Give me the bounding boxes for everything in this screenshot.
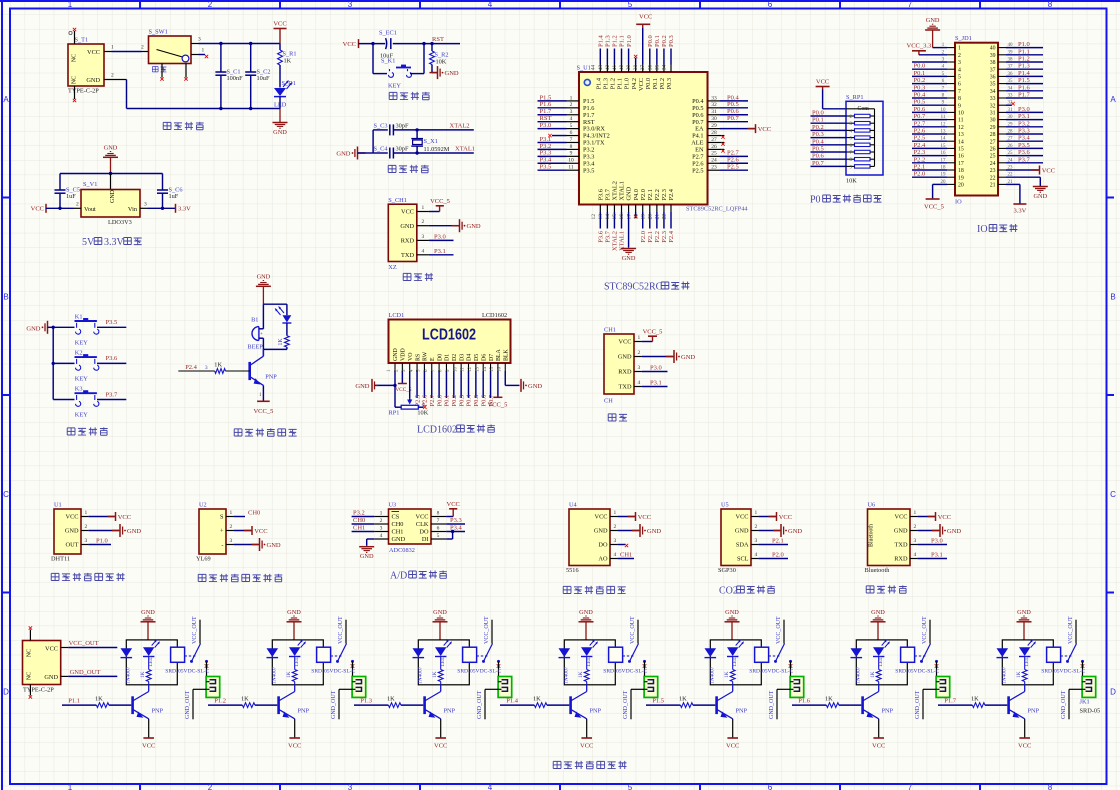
- svg-text:GND: GND: [273, 129, 287, 136]
- svg-text:11: 11: [958, 118, 964, 124]
- svg-text:SRD-05VDC-SL-C: SRD-05VDC-SL-C: [165, 669, 209, 675]
- svg-text:5: 5: [628, 0, 633, 9]
- svg-text:26: 26: [711, 144, 717, 150]
- svg-text:SRD-05: SRD-05: [1080, 708, 1101, 715]
- svg-text:VCC_OUT: VCC_OUT: [630, 616, 636, 644]
- svg-text:44: 44: [591, 65, 597, 71]
- svg-text:25: 25: [711, 151, 717, 157]
- serial pin3 P3.0: [634, 371, 642, 373]
- svg-text:14: 14: [605, 214, 611, 220]
- resistor 1K base unit 1: [62, 704, 96, 706]
- svg-text:B1: B1: [251, 316, 258, 323]
- adc U3 ADC0832: [389, 509, 432, 544]
- svg-text:8: 8: [1048, 0, 1053, 9]
- terminal block unit 6: [936, 677, 950, 698]
- svg-text:1: 1: [68, 0, 73, 9]
- ground GND reset: [432, 72, 438, 74]
- svg-text:GND_OUT: GND_OUT: [769, 690, 775, 719]
- svg-text:GND: GND: [336, 150, 350, 157]
- svg-text:P2.5: P2.5: [914, 135, 926, 142]
- svg-text:VCC: VCC: [343, 41, 356, 48]
- U6 GND port: [918, 530, 939, 532]
- svg-text:VCC_OUT: VCC_OUT: [1068, 616, 1074, 644]
- svg-text:P3.1: P3.1: [1018, 113, 1030, 120]
- svg-text:RXD: RXD: [894, 556, 908, 563]
- svg-text:P0.4: P0.4: [914, 92, 926, 99]
- svg-text:4: 4: [488, 783, 493, 790]
- svg-text:7: 7: [908, 0, 913, 9]
- svg-text:20: 20: [958, 183, 964, 189]
- svg-text:27: 27: [990, 139, 996, 145]
- svg-text:GND: GND: [467, 223, 481, 230]
- svg-text:P1.3: P1.3: [360, 698, 372, 705]
- svg-text:4: 4: [380, 533, 383, 539]
- connector S_JD1 IO header: [955, 43, 998, 196]
- svg-text:5: 5: [570, 123, 573, 129]
- svg-text:1K: 1K: [679, 696, 687, 703]
- resistor 1K base unit 4: [500, 704, 534, 706]
- svg-text:P2.0: P2.0: [640, 231, 647, 243]
- svg-text:TYPE-C-2P: TYPE-C-2P: [23, 687, 54, 694]
- svg-text:S_SW1: S_SW1: [149, 29, 168, 36]
- svg-text:PNP: PNP: [298, 708, 310, 715]
- svg-text:P0.6: P0.6: [480, 394, 487, 406]
- svg-text:LCD1602: LCD1602: [482, 312, 507, 319]
- svg-text:3: 3: [85, 538, 88, 544]
- svg-text:P2.0: P2.0: [640, 189, 647, 200]
- svg-text:1: 1: [614, 510, 617, 516]
- power port VCC_5 LCD vdd: [401, 371, 403, 384]
- svg-text:VCC_OUT: VCC_OUT: [776, 616, 782, 644]
- svg-text:GND: GND: [681, 354, 695, 361]
- LED unit 6: [873, 647, 884, 656]
- svg-text:3.3V: 3.3V: [1013, 208, 1026, 215]
- svg-text:P2.3: P2.3: [661, 231, 668, 243]
- svg-text:2: 2: [380, 518, 383, 524]
- svg-text:P2.4: P2.4: [914, 142, 926, 149]
- svg-text:19: 19: [958, 175, 964, 181]
- relay coil frame 3: [418, 640, 469, 685]
- serial pin4 P3.1: [634, 386, 642, 388]
- svg-text:SRD-05VDC-SL-C: SRD-05VDC-SL-C: [895, 669, 939, 675]
- svg-text:P3.2: P3.2: [353, 510, 365, 517]
- svg-text:21: 21: [655, 214, 661, 220]
- svg-text:21: 21: [990, 183, 996, 189]
- svg-text:P4.2: P4.2: [631, 78, 638, 89]
- svg-text:S_R2: S_R2: [435, 52, 449, 59]
- svg-text:7: 7: [437, 518, 440, 524]
- svg-text:GND_OUT: GND_OUT: [185, 690, 191, 719]
- svg-text:1K: 1K: [1016, 671, 1022, 678]
- power port VCC_5 JD1: [933, 183, 947, 185]
- svg-text:P2.6: P2.6: [914, 128, 926, 135]
- svg-text:-: -: [221, 542, 223, 549]
- svg-text:K3: K3: [75, 386, 83, 393]
- svg-text:XTAL2: XTAL2: [612, 231, 619, 251]
- svg-text:S: S: [220, 514, 224, 521]
- svg-text:VCC: VCC: [87, 49, 100, 56]
- svg-text:S_C4: S_C4: [374, 146, 389, 153]
- relay coil frame 7: [1002, 640, 1053, 685]
- svg-text:XTAL2: XTAL2: [450, 122, 470, 129]
- svg-text:2: 2: [76, 201, 79, 207]
- U2 S net CH0: [234, 516, 245, 518]
- U4 GND port: [618, 530, 639, 532]
- svg-text:GND: GND: [445, 70, 459, 77]
- U3 net P3.2: [352, 516, 375, 518]
- svg-text:VCC: VCC: [938, 514, 951, 521]
- U1 VCC port: [89, 516, 115, 518]
- svg-text:P2.1: P2.1: [647, 231, 654, 243]
- svg-text:STC89C52RC: STC89C52RC: [604, 282, 663, 293]
- RP1 input nets P0.0-P0.7: [811, 115, 847, 117]
- xz pin2 GND: [417, 225, 429, 227]
- port GND LCD left: [394, 371, 396, 385]
- svg-text:CH: CH: [604, 398, 613, 405]
- svg-text:5516: 5516: [566, 567, 579, 574]
- svg-text:P2.4: P2.4: [668, 230, 675, 242]
- svg-text:P0.7: P0.7: [812, 160, 824, 167]
- svg-text:P1.2: P1.2: [214, 698, 226, 705]
- LED unit 1: [143, 647, 154, 656]
- svg-text:GND_OUT: GND_OUT: [331, 690, 337, 719]
- svg-text:1uF: 1uF: [169, 193, 179, 200]
- capacitor S_C2 10uF: [250, 44, 252, 73]
- JD1 right nets: [1006, 47, 1043, 49]
- svg-text:IO: IO: [977, 224, 988, 235]
- svg-text:30pF: 30pF: [396, 146, 409, 153]
- svg-text:P0.1: P0.1: [914, 70, 926, 77]
- svg-text:VCC: VCC: [638, 78, 645, 91]
- svg-text:6: 6: [437, 526, 440, 532]
- relay coil frame 1: [126, 640, 177, 685]
- svg-text:P1.6: P1.6: [1018, 84, 1030, 91]
- LCD1602 display LCD1: [389, 320, 511, 364]
- relay coil frame 2: [272, 640, 323, 685]
- svg-text:LCD1602: LCD1602: [417, 425, 457, 436]
- svg-text:1K: 1K: [971, 696, 979, 703]
- svg-text:16: 16: [619, 214, 625, 220]
- svg-text:P0.5: P0.5: [812, 146, 824, 153]
- U5 SCL net P2.0: [759, 558, 788, 560]
- SW1 pin 3 wire to VCC rail: [191, 43, 199, 45]
- svg-text:P2.4: P2.4: [185, 364, 197, 371]
- svg-text:2: 2: [914, 524, 917, 530]
- svg-text:7: 7: [570, 137, 573, 143]
- svg-text:P4.0: P4.0: [633, 189, 640, 200]
- MCU bottom pins 12-22: [599, 205, 601, 213]
- svg-text:XTAL1: XTAL1: [455, 146, 475, 153]
- svg-text:IO: IO: [955, 199, 962, 206]
- svg-text:GND: GND: [287, 609, 301, 616]
- svg-text:VCC_5: VCC_5: [643, 329, 663, 336]
- wire VCC_OUT from TYPE-C: [61, 647, 69, 649]
- svg-text:14: 14: [958, 139, 964, 145]
- svg-text:KEY: KEY: [75, 375, 88, 382]
- svg-text:1N4007: 1N4007: [272, 666, 278, 684]
- svg-text:K1: K1: [75, 313, 83, 320]
- svg-text:42: 42: [605, 65, 611, 71]
- svg-text:P3.4: P3.4: [1018, 135, 1030, 142]
- svg-text:1: 1: [202, 48, 205, 54]
- svg-text:1: 1: [422, 205, 425, 211]
- svg-text:GND: GND: [433, 609, 447, 616]
- svg-text:GND: GND: [127, 528, 141, 535]
- transistor PNP unit 2: [277, 696, 280, 714]
- svg-text:VCC_OUT: VCC_OUT: [922, 616, 928, 644]
- svg-text:GND: GND: [626, 186, 633, 200]
- svg-text:VCC: VCC: [434, 743, 447, 750]
- svg-text:P3.6: P3.6: [598, 230, 605, 242]
- svg-text:GND: GND: [141, 609, 155, 616]
- svg-text:P1.2: P1.2: [610, 78, 617, 89]
- svg-text:P3.6: P3.6: [106, 355, 118, 362]
- caption anjian-dianlu: [67, 428, 75, 435]
- diode 1N4007 unit 5: [705, 648, 717, 657]
- svg-text:1K: 1K: [241, 696, 249, 703]
- co2 sensor U5 SGP30: [721, 509, 751, 566]
- svg-text:SCL: SCL: [737, 556, 749, 563]
- svg-text:2: 2: [208, 783, 213, 790]
- svg-text:40: 40: [619, 65, 625, 71]
- svg-text:2: 2: [755, 524, 758, 530]
- svg-text:P1.0: P1.0: [626, 35, 633, 47]
- svg-text:36: 36: [990, 75, 996, 81]
- key K3: [75, 392, 97, 394]
- svg-text:GND: GND: [618, 354, 632, 361]
- U2 GND port: [234, 544, 259, 546]
- U1 OUT net P1.0: [89, 544, 111, 546]
- diode 1N4007 unit 7: [997, 648, 1009, 657]
- power port VCC MCU top: [642, 28, 644, 65]
- svg-text:GND: GND: [393, 347, 399, 361]
- svg-text:1: 1: [958, 46, 961, 52]
- svg-text:P2.2: P2.2: [654, 189, 661, 200]
- svg-text:3.3V: 3.3V: [178, 206, 191, 213]
- LED unit 2: [289, 647, 300, 656]
- resistor 1K base unit 5: [646, 704, 680, 706]
- svg-text:P0.0: P0.0: [645, 78, 652, 89]
- resistor 1K led unit 4: [586, 657, 588, 670]
- connector S_CH1 XZ: [388, 204, 417, 261]
- svg-text:37: 37: [640, 65, 646, 71]
- svg-text:VCC_5: VCC_5: [253, 408, 273, 415]
- caption relay control: [553, 761, 561, 768]
- terminal block unit 5: [790, 677, 804, 698]
- svg-text:P1.6: P1.6: [798, 698, 810, 705]
- relay contact unit 1: [185, 655, 197, 657]
- svg-text:CS: CS: [392, 514, 400, 521]
- svg-text:KEY: KEY: [388, 83, 401, 90]
- svg-text:STC89C52RC_LQFP44: STC89C52RC_LQFP44: [686, 206, 748, 213]
- svg-text:1: 1: [914, 510, 917, 516]
- svg-text:U4: U4: [569, 502, 578, 509]
- svg-text:RXD: RXD: [618, 369, 632, 376]
- svg-text:GND_OUT: GND_OUT: [623, 690, 629, 719]
- wires key K1: [372, 44, 374, 74]
- MCU right pins 33-23: [708, 100, 721, 102]
- svg-text:P2.3: P2.3: [914, 149, 926, 156]
- resistor network S_RP1 10K: [846, 101, 883, 175]
- svg-text:P1.3: P1.3: [605, 35, 612, 47]
- svg-text:6: 6: [570, 130, 573, 136]
- svg-text:1: 1: [68, 783, 73, 790]
- relay box unit 4: [609, 647, 623, 662]
- svg-text:TXD: TXD: [619, 384, 632, 391]
- resistor S_R1 1K: [279, 44, 281, 51]
- svg-text:1K: 1K: [578, 671, 584, 678]
- wire EC1 to RST: [393, 43, 460, 45]
- svg-text:P0: P0: [810, 195, 821, 206]
- sensor U2 YL69: [199, 509, 226, 554]
- svg-text:10K: 10K: [417, 410, 428, 417]
- svg-text:16: 16: [958, 154, 964, 160]
- svg-text:GND: GND: [647, 528, 661, 535]
- svg-text:SRD-05VDC-SL-C: SRD-05VDC-SL-C: [1041, 669, 1085, 675]
- svg-text:VCC_5: VCC_5: [924, 204, 944, 211]
- U3 net CH1: [352, 531, 375, 533]
- svg-text:S_JD1: S_JD1: [955, 35, 972, 42]
- svg-text:VCC_OUT: VCC_OUT: [338, 616, 344, 644]
- svg-text:VCC: VCC: [619, 339, 632, 346]
- svg-text:3: 3: [422, 234, 425, 240]
- svg-text:10K: 10K: [846, 178, 857, 185]
- svg-text:GND: GND: [894, 528, 908, 535]
- svg-text:1K: 1K: [140, 671, 146, 678]
- svg-text:K2: K2: [75, 349, 83, 356]
- JD1 pin32 noerc: [1006, 104, 1012, 106]
- svg-text:35: 35: [990, 82, 996, 88]
- svg-text:PNP: PNP: [590, 708, 602, 715]
- svg-text:VCC: VCC: [779, 514, 792, 521]
- svg-text:P0.7: P0.7: [914, 113, 926, 120]
- svg-text:BEEP: BEEP: [247, 343, 263, 350]
- LED alarm: [283, 315, 292, 322]
- svg-text:Vout: Vout: [84, 206, 96, 213]
- relay box unit 2: [317, 647, 331, 662]
- svg-text:1: 1: [111, 45, 114, 51]
- svg-text:3: 3: [380, 526, 383, 532]
- svg-text:SDA: SDA: [736, 542, 749, 549]
- svg-text:VDD: VDD: [401, 347, 407, 361]
- svg-text:1: 1: [380, 511, 383, 517]
- svg-text:GND: GND: [355, 383, 369, 390]
- svg-text:P1.1: P1.1: [617, 78, 624, 89]
- wire GND_OUT unit 5: [777, 688, 790, 690]
- svg-text:100nF: 100nF: [227, 75, 244, 82]
- svg-text:SGP30: SGP30: [718, 567, 736, 574]
- svg-text:8: 8: [570, 144, 573, 150]
- U3 net P3.3: [446, 523, 465, 525]
- buzzer B1 BEEP: [258, 327, 260, 341]
- svg-text:P1.4: P1.4: [506, 698, 518, 705]
- svg-text:1: 1: [638, 335, 641, 341]
- svg-text:VO: VO: [408, 352, 414, 361]
- svg-text:P0.7: P0.7: [727, 115, 739, 122]
- svg-text:P0.1: P0.1: [652, 78, 659, 89]
- svg-text:1K: 1K: [432, 671, 438, 678]
- serial pin2 GND: [634, 356, 642, 358]
- svg-text:P2.7: P2.7: [429, 394, 436, 406]
- svg-text:PNP: PNP: [152, 708, 164, 715]
- svg-text:P0.3: P0.3: [666, 78, 673, 89]
- LCD data nets: [416, 371, 418, 398]
- ground GND power circuit: [279, 109, 281, 123]
- svg-text:5V: 5V: [82, 237, 95, 248]
- svg-text:6: 6: [768, 783, 773, 790]
- svg-text:B: B: [3, 292, 8, 301]
- svg-text:C: C: [1110, 490, 1116, 499]
- svg-text:VCC: VCC: [66, 514, 79, 521]
- svg-text:A: A: [3, 95, 9, 104]
- svg-text:3: 3: [570, 109, 573, 115]
- svg-text:30: 30: [990, 118, 996, 124]
- wire ldo top rail: [60, 173, 163, 175]
- svg-text:P0.3: P0.3: [458, 395, 465, 407]
- svg-text:P1.2: P1.2: [1018, 56, 1030, 63]
- resistor 1K led unit 3: [440, 657, 442, 670]
- svg-text:4: 4: [614, 552, 617, 558]
- resistor 1K led unit 5: [732, 657, 734, 670]
- svg-text:VCC: VCC: [639, 14, 652, 21]
- svg-text:P0.1: P0.1: [444, 395, 451, 407]
- svg-text:3.3V: 3.3V: [104, 237, 125, 248]
- connector TYPE-C power out: [23, 641, 61, 685]
- svg-text:P3.0: P3.0: [650, 365, 662, 372]
- svg-text:GND: GND: [65, 528, 79, 535]
- svg-text:36: 36: [647, 65, 653, 71]
- svg-text:D: D: [1110, 687, 1116, 696]
- svg-text:2: 2: [208, 0, 213, 9]
- svg-text:P1.2: P1.2: [612, 35, 619, 47]
- svg-text:P2.1: P2.1: [914, 164, 926, 171]
- svg-text:1K: 1K: [387, 696, 395, 703]
- svg-text:AO: AO: [598, 556, 608, 563]
- svg-text:VCC: VCC: [872, 743, 885, 750]
- U5 GND port: [759, 530, 780, 532]
- svg-text:CH1: CH1: [353, 525, 365, 532]
- svg-text:1N4007: 1N4007: [564, 666, 570, 684]
- svg-text:VCC: VCC: [758, 126, 771, 133]
- svg-text:P3.1: P3.1: [931, 552, 943, 559]
- svg-text:P0.0: P0.0: [647, 35, 654, 47]
- transistor PNP unit 7: [1007, 696, 1010, 714]
- caption turang: [198, 574, 206, 581]
- resistor 1K base unit 7: [938, 704, 972, 706]
- U3 ground: [367, 538, 375, 540]
- svg-text:P0.2: P0.2: [451, 395, 458, 407]
- svg-text:XZ: XZ: [388, 264, 397, 271]
- connector S_T1 TYPE-C-2P: [68, 44, 104, 86]
- JD1 pin stubs and numbers: [947, 47, 955, 49]
- svg-text:VCC_OUT: VCC_OUT: [484, 616, 490, 644]
- svg-text:GND: GND: [257, 273, 271, 280]
- svg-text:LDO3V3: LDO3V3: [108, 219, 132, 226]
- svg-text:3: 3: [348, 783, 353, 790]
- svg-text:ADC0832: ADC0832: [389, 547, 415, 554]
- svg-text:GND_OUT: GND_OUT: [915, 690, 921, 719]
- svg-text:P3.7: P3.7: [106, 391, 118, 398]
- svg-text:28: 28: [990, 132, 996, 138]
- svg-text:1N4007: 1N4007: [418, 666, 424, 684]
- MCU top P4.2 noerc: [635, 58, 637, 65]
- U3 net P3.4: [446, 531, 465, 533]
- wire GND rail of power circuit: [104, 79, 127, 81]
- svg-text:VCC: VCC: [401, 209, 414, 216]
- svg-text:3: 3: [205, 365, 208, 371]
- svg-text:10K: 10K: [436, 59, 447, 66]
- svg-text:VCC_5: VCC_5: [488, 402, 508, 409]
